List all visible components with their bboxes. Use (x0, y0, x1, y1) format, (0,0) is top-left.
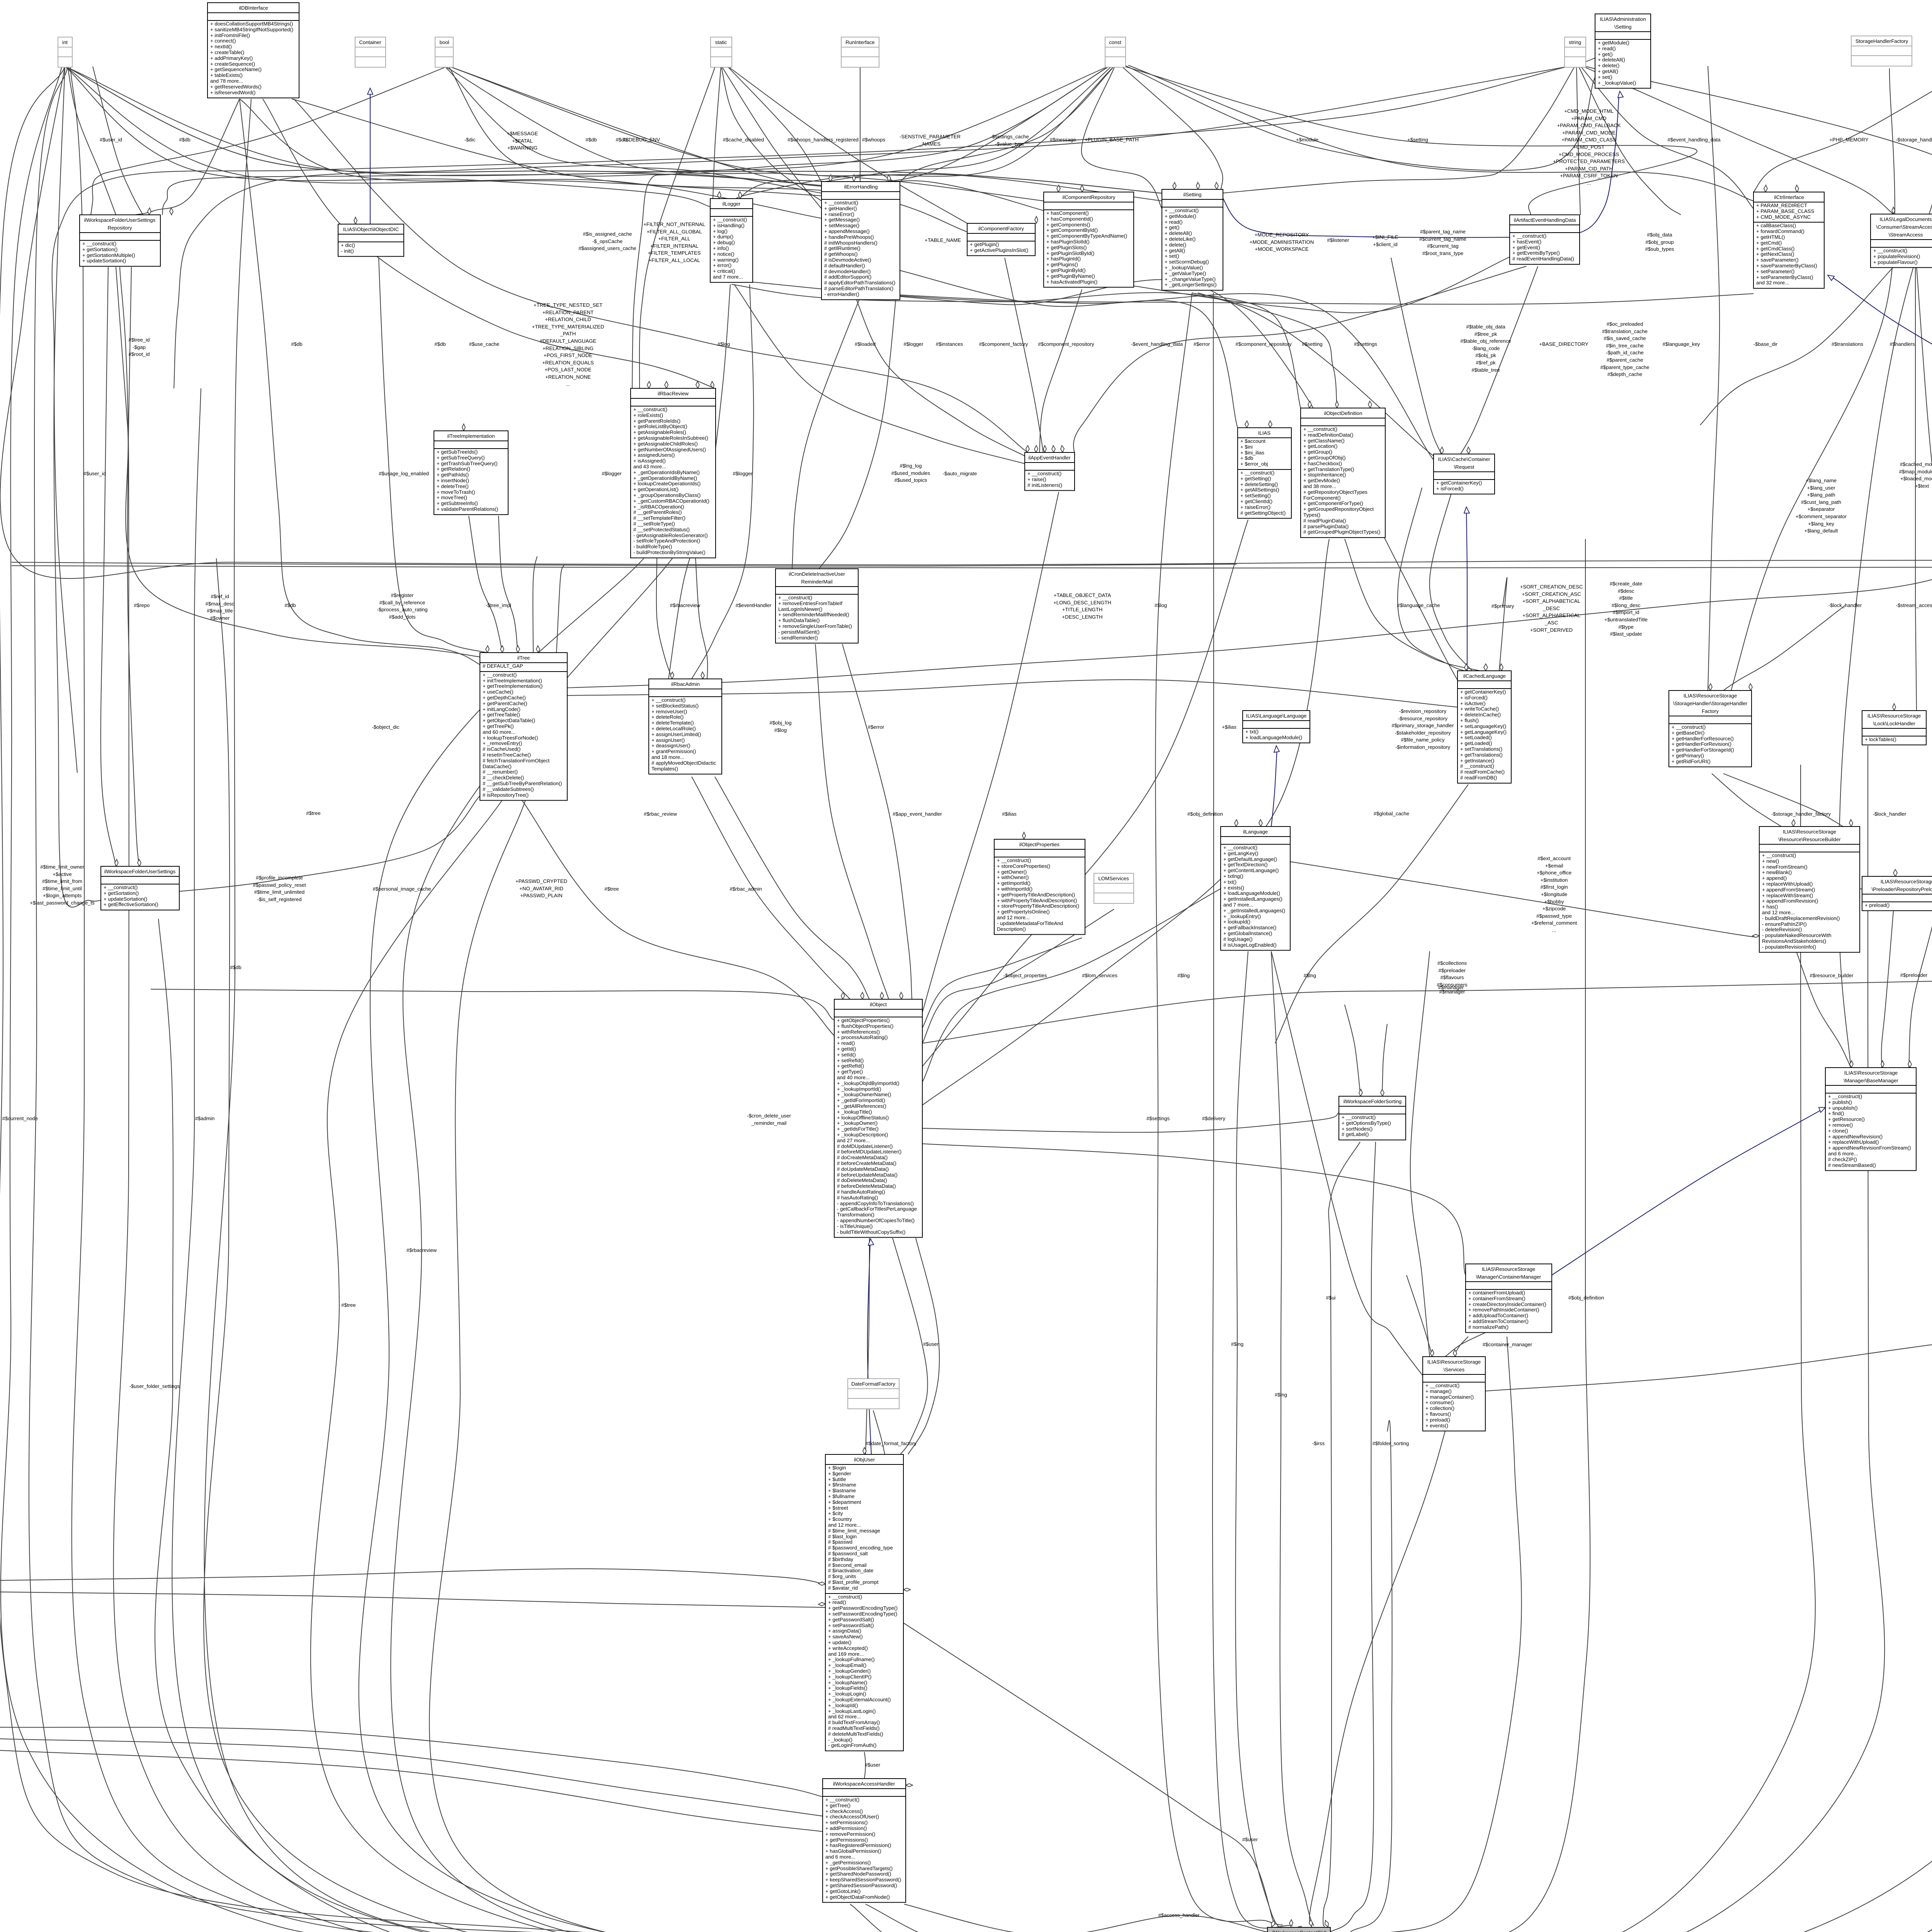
svg-text:- setRoleTypeAndProtection(): - setRoleTypeAndProtection() (633, 538, 700, 544)
svg-text:+ _getIdForImportId(): + _getIdForImportId() (837, 1097, 885, 1103)
svg-text:ilWorkspaceFolderSorting: ilWorkspaceFolderSorting (1344, 1099, 1402, 1104)
svg-text:ILIAS\Object\ilObjectDIC: ILIAS\Object\ilObjectDIC (343, 226, 399, 232)
svg-text:+ getModule(): + getModule() (1165, 213, 1196, 219)
svg-text:ilWorkspaceAccessHandler: ilWorkspaceAccessHandler (833, 1781, 895, 1787)
svg-text:#$event_handling_data: #$event_handling_data (1667, 137, 1721, 143)
class ilAppEventHandler (1025, 452, 1075, 490)
svg-text:#$table_obj_reference: #$table_obj_reference (1460, 338, 1511, 344)
svg-text:+ getComponentById(): + getComponentById() (1046, 227, 1098, 233)
svg-text:Container: Container (359, 39, 381, 45)
svg-text:# getWhoops(): # getWhoops() (824, 251, 858, 257)
svg-text:+ removeUser(): + removeUser() (651, 709, 687, 714)
svg-text:+ createDirectoryInsideContain: + createDirectoryInsideContainer() (1468, 1301, 1546, 1307)
svg-text:+ __construct(): + __construct() (1672, 724, 1706, 730)
svg-text:#$assigned_users_cache: #$assigned_users_cache (578, 245, 636, 251)
svg-text:+POS_FIRST_NODE: +POS_FIRST_NODE (544, 352, 593, 358)
svg-text:# applyMovedObjectDidactic: # applyMovedObjectDidactic (651, 760, 716, 766)
svg-text:RunInterface: RunInterface (845, 39, 875, 45)
svg-text:#$access_handler: #$access_handler (1158, 1912, 1200, 1918)
svg-text:+RELATION_CHILD: +RELATION_CHILD (545, 316, 591, 322)
svg-text:+ getEvent(): + getEvent() (1512, 245, 1540, 250)
svg-text:ilDBInterface: ilDBInterface (239, 5, 268, 11)
svg-text:+ __construct(): + __construct() (828, 1594, 862, 1600)
svg-text:+ has(): + has() (1762, 904, 1778, 910)
svg-text:+ appendFromStream(): + appendFromStream() (1762, 887, 1815, 893)
svg-text:#$manager: #$manager (1438, 985, 1464, 990)
svg-text:+ assignUser(): + assignUser() (651, 737, 685, 743)
svg-text:#$import_id: #$import_id (1613, 609, 1639, 615)
svg-text:+ delete(): + delete() (1598, 63, 1619, 68)
svg-text:+$setting: +$setting (1407, 137, 1428, 143)
svg-text:+ writeAccepted(): + writeAccepted() (828, 1645, 868, 1651)
svg-text:+ getSortation(): + getSortation() (104, 890, 139, 896)
svg-text:+$zipcode: +$zipcode (1543, 906, 1566, 912)
svg-text:+ getOptionsByType(): + getOptionsByType() (1342, 1120, 1391, 1126)
svg-text:+ __construct(): + __construct() (1425, 1383, 1459, 1388)
class ilCronDelete (776, 569, 858, 643)
svg-text:+ getContainerKey(): + getContainerKey() (1460, 689, 1506, 695)
svg-text:#$collections: #$collections (1437, 960, 1467, 966)
svg-text:Repository: Repository (107, 225, 132, 231)
svg-text:+ assignedUsers(): + assignedUsers() (633, 452, 675, 458)
svg-text:#$ilias: #$ilias (1002, 811, 1017, 817)
svg-text:+ CMD_MODE_ASYNC: + CMD_MODE_ASYNC (1756, 214, 1811, 220)
svg-text:+ deleteAll(): + deleteAll() (1598, 57, 1625, 63)
svg-text:+ publish(): + publish() (1828, 1099, 1852, 1105)
svg-text:+ assignUserLimited(): + assignUserLimited() (651, 731, 701, 737)
svg-text:+ getSetting(): + getSetting() (1240, 476, 1271, 481)
svg-text:+ getPlugin(): + getPlugin() (970, 241, 999, 247)
edges (0, 66, 1267, 1932)
svg-text:+ nextId(): + nextId() (210, 44, 232, 49)
svg-text:-$tree_impl: -$tree_impl (486, 602, 511, 608)
svg-text:+ withPropertyTitleAndDescript: + withPropertyTitleAndDescription() (997, 898, 1077, 903)
svg-text:+ _lookupName(): + _lookupName() (828, 1680, 867, 1685)
svg-text:#$db: #$db (230, 964, 241, 970)
svg-text:#$user: #$user (923, 1341, 939, 1347)
svg-text:+ setPasswordSalt(): + setPasswordSalt() (828, 1622, 874, 1628)
svg-text:+ isReservedWord(): + isReservedWord() (210, 90, 255, 95)
class const (1105, 37, 1126, 67)
class ilRbacAdmin (649, 679, 722, 774)
svg-text:+ getActivePluginsInSlot(): + getActivePluginsInSlot() (970, 247, 1028, 253)
svg-text:+BASE_DIRECTORY: +BASE_DIRECTORY (1539, 341, 1588, 347)
svg-text:+ getNextClass(): + getNextClass() (1756, 251, 1794, 257)
svg-text:# readFromCache(): # readFromCache() (1460, 769, 1505, 775)
svg-text:+ removeSingleUserFromTable(): + removeSingleUserFromTable() (778, 623, 852, 629)
svg-text:#$rbac_admin: #$rbac_admin (730, 886, 762, 892)
svg-text:+$loaded_modules: +$loaded_modules (1900, 476, 1932, 481)
class ilComponentRepository (1044, 192, 1134, 287)
svg-text:# getSettingObject(): # getSettingObject() (1240, 510, 1286, 516)
svg-text:+ getEventsByType(): + getEventsByType() (1512, 250, 1560, 256)
class WFUS (101, 866, 179, 910)
svg-text:+$ilias: +$ilias (1222, 724, 1236, 730)
svg-text:+ getRoleListByObject(): + getRoleListByObject() (633, 423, 687, 429)
svg-text:# applyEditorPathTranslations(: # applyEditorPathTranslations() (824, 280, 895, 286)
svg-text:+PLUGIN_BASE_PATH: +PLUGIN_BASE_PATH (1085, 137, 1139, 143)
svg-text:+ $utitle: + $utitle (828, 1476, 846, 1482)
svg-text:+ getAssignableRoles(): + getAssignableRoles() (633, 429, 686, 435)
svg-text:#$container_manager: #$container_manager (1483, 1342, 1532, 1347)
svg-text:+ __construct(): + __construct() (1027, 471, 1061, 476)
svg-text:ILIAS\Language\Language: ILIAS\Language\Language (1246, 713, 1307, 719)
svg-text:Description(): Description() (997, 926, 1026, 932)
class LangLanguage (1243, 711, 1310, 743)
svg-text:ilObject: ilObject (870, 1002, 887, 1007)
svg-text:+$longitude: +$longitude (1541, 891, 1568, 897)
svg-text:# $password_encoding_type: # $password_encoding_type (828, 1545, 893, 1551)
svg-text:+ hasActivatedPlugin(): + hasActivatedPlugin() (1046, 279, 1097, 285)
svg-text:# getLabel(): # getLabel() (1342, 1131, 1369, 1137)
svg-text:# defaultHandler(): # defaultHandler() (824, 263, 865, 269)
svg-text:bool: bool (440, 39, 449, 45)
svg-text:+ forwardCommand(): + forwardCommand() (1756, 228, 1804, 234)
svg-text:# __setRoleType(): # __setRoleType() (633, 521, 675, 527)
svg-text:+ $gender: + $gender (828, 1471, 851, 1476)
svg-text:+$referral_comment: +$referral_comment (1531, 920, 1577, 926)
svg-text:+ createSequence(): + createSequence() (210, 61, 255, 67)
svg-text:+ getTrashSubTreeQuery(): + getTrashSubTreeQuery() (437, 461, 498, 466)
svg-text:#$admin: #$admin (195, 1116, 215, 1121)
svg-text:+RELATION_NONE: +RELATION_NONE (545, 374, 591, 380)
svg-text:+ stopInheritance(): + stopInheritance() (1303, 472, 1346, 478)
svg-text:\Request: \Request (1454, 464, 1475, 470)
svg-text:+PARAM_CMD_MODE: +PARAM_CMD_MODE (1562, 130, 1616, 136)
svg-text:static: static (715, 39, 727, 45)
svg-text:+ getLanguageKey(): + getLanguageKey() (1460, 729, 1507, 735)
svg-text:+ containerFromStream(): + containerFromStream() (1468, 1296, 1526, 1301)
svg-text:_PATH: _PATH (560, 331, 576, 337)
svg-text:+$active: +$active (53, 871, 72, 877)
svg-text:_DESC: _DESC (1543, 605, 1560, 611)
svg-text:+ getSubtreeInfo(): + getSubtreeInfo() (437, 500, 478, 506)
svg-text:+PARAM_CID_PATH: +PARAM_CID_PATH (1565, 166, 1613, 172)
svg-text:...: ... (1552, 927, 1556, 933)
svg-text:# parseEditorPathTranslation(): # parseEditorPathTranslation() (824, 286, 893, 291)
svg-text:+$MESSAGE: +$MESSAGE (507, 131, 538, 136)
svg-text:+ getPermissions(): + getPermissions() (825, 1837, 868, 1843)
svg-text:+ getAll(): + getAll() (1598, 68, 1618, 74)
svg-text:+NO_AVATAR_RID: +NO_AVATAR_RID (519, 886, 563, 891)
svg-text:+ deleteInCache(): + deleteInCache() (1460, 712, 1501, 718)
svg-text:+$FATAL: +$FATAL (512, 138, 532, 144)
svg-text:+ $street: + $street (828, 1505, 848, 1511)
svg-text:# __construct(): # __construct() (1460, 763, 1494, 769)
svg-text:+ getRepositoryObjectTypes: + getRepositoryObjectTypes (1303, 489, 1367, 495)
svg-text:+ hasGlobalPermission(): + hasGlobalPermission() (825, 1848, 881, 1854)
svg-text:#$rbacreview: #$rbacreview (670, 602, 701, 608)
svg-text:+ deleteSetting(): + deleteSetting() (1240, 481, 1278, 487)
svg-text:ilArtifactEventHandlingData: ilArtifactEventHandlingData (1514, 217, 1576, 223)
svg-text:+ _getPermissions(): + _getPermissions() (825, 1860, 871, 1866)
svg-text:- populateNakedResourceWith: - populateNakedResourceWith (1762, 932, 1832, 938)
svg-text:+ hasCheckbox(): + hasCheckbox() (1303, 461, 1342, 466)
svg-text:#$db: #$db (585, 137, 597, 143)
svg-text:+ getGroupedRepositoryObject: + getGroupedRepositoryObject (1303, 506, 1374, 512)
svg-text:+ _lookupImportId(): + _lookupImportId() (837, 1086, 881, 1092)
svg-text:#$ref_id: #$ref_id (211, 594, 229, 599)
class ilArtifactEventHandlingData (1510, 215, 1580, 264)
svg-text:+ initLangCode(): + initLangCode() (483, 706, 520, 712)
svg-text:ilObjectProperties: ilObjectProperties (1019, 842, 1060, 847)
svg-text:+ get(): + get() (1598, 51, 1612, 57)
svg-text:- populateRevisionInfo(): - populateRevisionInfo() (1762, 944, 1816, 950)
svg-text:+ deleteRole(): + deleteRole() (651, 714, 684, 720)
svg-text:+ _lookupFullname(): + _lookupFullname() (828, 1656, 875, 1662)
class ilErrorHandling (821, 182, 900, 300)
svg-text:#$obj_definition: #$obj_definition (1187, 811, 1223, 817)
svg-text:# isRepositoryTree(): # isRepositoryTree() (483, 792, 529, 798)
svg-text:StorageHandlerFactory: StorageHandlerFactory (1855, 38, 1908, 44)
svg-text:#$delivery: #$delivery (1202, 1116, 1226, 1121)
svg-text:-$user_folder_settings: -$user_folder_settings (129, 1383, 180, 1389)
svg-text:+FILTER_NOT_INTERNAL: +FILTER_NOT_INTERNAL (643, 221, 705, 227)
svg-text:+ assignData(): + assignData() (828, 1628, 861, 1634)
svg-text:+ getId(): + getId() (837, 1046, 856, 1052)
svg-text:# __checkDelete(): # __checkDelete() (483, 775, 524, 781)
svg-text:+ __construct(): + __construct() (82, 241, 116, 247)
svg-text:DataCache(): DataCache() (483, 764, 512, 769)
svg-text:+ populateFlavour(): + populateFlavour() (1873, 259, 1918, 265)
svg-text:+POS_LAST_NODE: +POS_LAST_NODE (544, 367, 592, 372)
svg-text:+ deleteTemplate(): + deleteTemplate() (651, 720, 694, 726)
class ilObjectProperties (994, 839, 1085, 934)
svg-text:+ _groupOperationsByClass(): + _groupOperationsByClass() (633, 492, 701, 498)
svg-text:+ setId(): + setId() (837, 1052, 856, 1058)
svg-text:# devmodeHandler(): # devmodeHandler() (824, 269, 871, 274)
class LOMServices (1094, 873, 1134, 903)
svg-text:+ getAssignableRolesInSubtree(: + getAssignableRolesInSubtree() (633, 435, 708, 441)
svg-text:+ $account: + $account (1240, 438, 1265, 444)
class bool (435, 37, 453, 67)
svg-text:+TABLE_NAME: +TABLE_NAME (925, 237, 961, 243)
svg-text:+ getObjectDataFromNode(): + getObjectDataFromNode() (825, 1894, 890, 1900)
svg-text:+ lockTables(): + lockTables() (1865, 736, 1896, 742)
svg-text:# doCreateMetaData(): # doCreateMetaData() (837, 1155, 888, 1160)
svg-text:+ getReservedWords(): + getReservedWords() (210, 84, 262, 90)
svg-text:+ getSortation(): + getSortation() (82, 247, 117, 252)
svg-text:# parsePluginData(): # parsePluginData() (1303, 524, 1349, 529)
svg-text:# readPluginData(): # readPluginData() (1303, 518, 1346, 524)
svg-text:+PASSWD_CRYPTED: +PASSWD_CRYPTED (515, 878, 567, 884)
svg-text:+ appendNewRevisionFromStream(: + appendNewRevisionFromStream() (1828, 1145, 1911, 1151)
svg-text:DateFormatFactory: DateFormatFactory (851, 1381, 895, 1387)
svg-text:#$obj_data: #$obj_data (1647, 232, 1672, 238)
svg-text:#$current_tag_name: #$current_tag_name (1419, 236, 1466, 242)
svg-text:- appendCopyInfoToTranslations: - appendCopyInfoToTranslations() (837, 1201, 914, 1206)
svg-text:\StorageHandler\StorageHandler: \StorageHandler\StorageHandler (1673, 701, 1748, 706)
class ilWorkspaceContentGUI (1267, 1927, 1330, 1932)
svg-text:#$add_dots: #$add_dots (389, 614, 416, 620)
svg-text:ilWorkspaceFolderUserSettings: ilWorkspaceFolderUserSettings (104, 869, 176, 874)
svg-text:-$object_properties: -$object_properties (1003, 973, 1047, 978)
svg-text:# beforeUpdateMetaData(): # beforeUpdateMetaData() (837, 1172, 898, 1178)
svg-text:+ __construct(): + __construct() (1303, 426, 1337, 432)
svg-text:#$tree_id: #$tree_id (129, 337, 150, 343)
svg-text:# $passwd: # $passwd (828, 1539, 852, 1545)
svg-text:+ getRefId(): + getRefId() (837, 1063, 864, 1069)
svg-text:+ __construct(): + __construct() (1512, 233, 1546, 239)
svg-text:#$repo: #$repo (134, 602, 150, 608)
class DateFormatFactory (848, 1379, 899, 1409)
svg-text:+ __construct(): + __construct() (1223, 845, 1257, 850)
svg-text:#$preloader: #$preloader (1900, 972, 1928, 978)
svg-text:+ __construct(): + __construct() (824, 200, 858, 206)
svg-text:+ appendNewRevision(): + appendNewRevision() (1828, 1134, 1883, 1139)
svg-text:+ _getLongerSettings(): + _getLongerSettings() (1165, 282, 1217, 287)
svg-text:+ unpublish(): + unpublish() (1828, 1105, 1858, 1111)
svg-text:+ log(): + log() (713, 228, 728, 234)
svg-text:+ lookupId(): + lookupId() (1223, 919, 1250, 925)
svg-text:#$desc: #$desc (1618, 588, 1634, 594)
svg-text:+ getLocation(): + getLocation() (1303, 443, 1337, 449)
svg-text:+ getAssignableChildRoles(): + getAssignableChildRoles() (633, 441, 698, 447)
svg-text:+ events(): + events() (1425, 1423, 1448, 1429)
svg-text:# newStreamBased(): # newStreamBased() (1828, 1162, 1876, 1168)
svg-text:ILIAS\LegalDocuments: ILIAS\LegalDocuments (1880, 216, 1932, 222)
svg-text:#$language_cache: #$language_cache (1397, 602, 1440, 608)
svg-text:#$ref_pk: #$ref_pk (1476, 360, 1496, 366)
svg-text:# deleteMultiTextFields(): # deleteMultiTextFields() (828, 1731, 883, 1737)
class ilTree (480, 653, 567, 800)
svg-text:#$handlers: #$handlers (1889, 341, 1915, 347)
svg-text:+ getLoaded(): + getLoaded() (1460, 740, 1492, 746)
svg-text:#$whoops: #$whoops (862, 137, 886, 143)
svg-text:+ _lookupLogin(): + _lookupLogin() (828, 1691, 866, 1697)
svg-text:+ getDepthCache(): + getDepthCache() (483, 695, 526, 701)
svg-text:-$irss: -$irss (1312, 1440, 1325, 1446)
class ContainerManager (1466, 1264, 1552, 1333)
svg-text:+ __construct(): + __construct() (483, 672, 517, 678)
svg-text:+ __construct(): + __construct() (1828, 1094, 1862, 1099)
svg-text:+ deleteLike(): + deleteLike() (1165, 236, 1196, 242)
svg-text:+DESC_LENGTH: +DESC_LENGTH (1062, 614, 1102, 620)
svg-text:#$obj_group: #$obj_group (1645, 239, 1673, 245)
svg-text:+ PARAM_BASE_CLASS: + PARAM_BASE_CLASS (1756, 208, 1815, 214)
svg-text:+ setRefId(): + setRefId() (837, 1058, 864, 1063)
svg-text:+$lang_user: +$lang_user (1807, 485, 1836, 491)
svg-text:LastLoginIsNewer(): LastLoginIsNewer() (778, 606, 822, 612)
svg-text:+ getTree(): + getTree() (825, 1803, 850, 1808)
svg-text:+ dic(): + dic() (341, 242, 355, 248)
svg-text:+ _lookupTitle(): + _lookupTitle() (837, 1109, 872, 1115)
class ILIAS (1238, 428, 1291, 518)
svg-text:#$lng: #$lng (1304, 973, 1316, 978)
svg-text:#$profile_incomplete: #$profile_incomplete (256, 875, 303, 881)
svg-text:+ getClientId(): + getClientId() (1240, 498, 1272, 504)
svg-text:+ getSubTreeQuery(): + getSubTreeQuery() (437, 455, 485, 461)
class ilLanguage (1221, 827, 1290, 950)
svg-text:+RELATION_PARENT: +RELATION_PARENT (543, 310, 594, 315)
svg-text:# $time_limit_message: # $time_limit_message (828, 1528, 880, 1534)
svg-text:+ consume(): + consume() (1425, 1400, 1454, 1405)
svg-text:and 6 more...: and 6 more... (825, 1854, 855, 1860)
svg-text:+ flushDataTable(): + flushDataTable() (778, 617, 820, 623)
svg-text:+ __construct(): + __construct() (713, 217, 747, 223)
svg-text:- init(): - init() (341, 248, 354, 254)
svg-text:+ setLoaded(): + setLoaded() (1460, 735, 1492, 740)
svg-text:#$component_factory: #$component_factory (979, 341, 1028, 347)
svg-text:+ getRelation(): + getRelation() (437, 466, 470, 472)
svg-text:#$passwd_policy_reset: #$passwd_policy_reset (253, 882, 306, 888)
svg-text:#$table_obj_data: #$table_obj_data (1466, 324, 1505, 330)
svg-text:\Consumer\StreamAccess: \Consumer\StreamAccess (1876, 224, 1932, 230)
svg-text:ILIAS\ResourceStorage: ILIAS\ResourceStorage (1482, 1266, 1536, 1272)
svg-text:+ notice(): + notice() (713, 251, 734, 257)
svg-text:+ replaceWithStream(): + replaceWithStream() (1762, 893, 1813, 898)
class RSStorageHandlerFactory (1669, 690, 1752, 767)
svg-text:+ hasComponent(): + hasComponent() (1046, 210, 1089, 216)
svg-text:+ moveToTrash(): + moveToTrash() (437, 489, 475, 495)
svg-text:+ getSequenceName(): + getSequenceName() (210, 66, 262, 72)
svg-text:+ removePermission(): + removePermission() (825, 1831, 875, 1837)
svg-text:+ __construct(): + __construct() (1165, 207, 1199, 213)
svg-text:#$logger: #$logger (903, 341, 923, 347)
svg-text:+ deassignUser(): + deassignUser() (651, 743, 690, 748)
svg-text:#$date_format_factory: #$date_format_factory (866, 1440, 917, 1446)
svg-text:#$tree: #$tree (604, 886, 619, 892)
svg-text:#$file_name_policy: #$file_name_policy (1401, 737, 1445, 743)
svg-text:+ raiseError(): + raiseError() (824, 211, 854, 217)
svg-text:#$first_login: #$first_login (1540, 884, 1568, 890)
svg-text:+ __construct(): + __construct() (633, 406, 667, 412)
svg-text:+ collection(): + collection() (1425, 1405, 1454, 1411)
svg-text:+ getGotoLink(): + getGotoLink() (825, 1888, 861, 1894)
svg-text:+ checkAccess(): + checkAccess() (825, 1808, 863, 1814)
svg-text:ilAppEventHandler: ilAppEventHandler (1028, 455, 1071, 461)
svg-text:-$stakeholder_repository: -$stakeholder_repository (1395, 730, 1451, 736)
svg-text:+ setBlockedStatus(): + setBlockedStatus() (651, 703, 699, 709)
svg-text:#$message: #$message (1050, 137, 1076, 143)
svg-text:#$lng: #$lng (1231, 1341, 1243, 1347)
svg-text:and 38 more...: and 38 more... (1303, 483, 1336, 489)
svg-text:-$resource_repository: -$resource_repository (1398, 716, 1448, 721)
svg-text:+SORT_ALPHABETICAL: +SORT_ALPHABETICAL (1522, 612, 1580, 618)
svg-text:+ getParentCache(): + getParentCache() (483, 701, 527, 706)
svg-text:# readEventHandlingData(): # readEventHandlingData() (1512, 256, 1574, 262)
svg-text:ilCtrlInterface: ilCtrlInterface (1774, 194, 1804, 200)
svg-text:+ _lookupDescription(): + _lookupDescription() (837, 1132, 888, 1138)
svg-text:#$ui: #$ui (1326, 1295, 1336, 1301)
svg-text:- ensurePathInZIP(): - ensurePathInZIP() (1762, 921, 1807, 927)
svg-text:- buildDraftReplacementRevisio: - buildDraftReplacementRevision() (1762, 915, 1840, 921)
svg-text:-$settings_cache: -$settings_cache (990, 134, 1029, 139)
svg-text:+ setLanguageKey(): + setLanguageKey() (1460, 723, 1506, 729)
svg-text:+ getOwner(): + getOwner() (997, 869, 1027, 875)
svg-text:#$log: #$log (718, 341, 730, 347)
svg-text:+FILTER_ALL: +FILTER_ALL (658, 236, 690, 241)
svg-text:\Services: \Services (1444, 1367, 1465, 1372)
svg-text:+ setSetting(): + setSetting() (1240, 493, 1271, 498)
svg-text:ilCronDeleteInactiveUser: ilCronDeleteInactiveUser (789, 571, 845, 577)
svg-text:+ getAll(): + getAll() (1165, 248, 1185, 253)
svg-text:ilComponentFactory: ilComponentFactory (978, 226, 1024, 231)
svg-text:#$used_topics: #$used_topics (894, 477, 927, 483)
svg-text:+ keepSharedSessionPassword(): + keepSharedSessionPassword() (825, 1877, 901, 1883)
svg-text:+ addPermission(): + addPermission() (825, 1825, 867, 1831)
svg-text:# beforeCreateMetaData(): # beforeCreateMetaData() (837, 1160, 896, 1166)
svg-text:-$lock_handler: -$lock_handler (1828, 602, 1862, 608)
svg-text:+ initTreeImplementation(): + initTreeImplementation() (483, 678, 542, 684)
svg-text:+ clone(): + clone() (1828, 1128, 1848, 1134)
svg-text:+SORT_CREATION_ASC: +SORT_CREATION_ASC (1522, 591, 1581, 597)
svg-text:# $second_email: # $second_email (828, 1562, 867, 1568)
svg-text:+ getPropertyIsOnline(): + getPropertyIsOnline() (997, 909, 1050, 915)
svg-text:+ insertNode(): + insertNode() (437, 478, 469, 483)
svg-text:+ getPropertyTitleAndDescripti: + getPropertyTitleAndDescription() (997, 892, 1075, 898)
svg-text:and 32 more...: and 32 more... (1756, 280, 1789, 286)
